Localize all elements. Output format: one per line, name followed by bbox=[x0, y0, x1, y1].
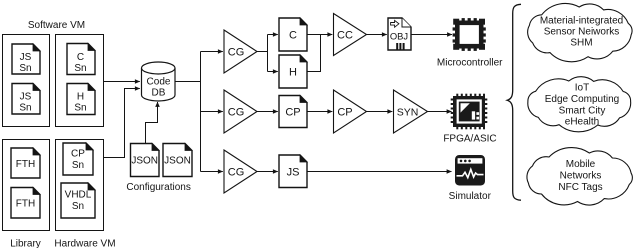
svg-text:Configurations: Configurations bbox=[126, 182, 190, 193]
svg-text:Microcontroller: Microcontroller bbox=[437, 58, 503, 69]
wire CP triangle to SYN bbox=[367, 111, 393, 113]
wire Code DB to CG trunk bbox=[175, 81, 201, 83]
document FTH #2 bbox=[11, 188, 40, 219]
svg-text:CG: CG bbox=[228, 46, 245, 58]
svg-text:Networks: Networks bbox=[560, 171, 602, 182]
document OBJ object file bbox=[388, 18, 411, 50]
svg-text:CC: CC bbox=[337, 29, 353, 41]
svg-text:Simulator: Simulator bbox=[449, 191, 492, 202]
document JS (generated) bbox=[279, 155, 307, 188]
cloud IoT Edge Computing Smart City eHealth bbox=[528, 77, 631, 132]
svg-text:eHealth: eHealth bbox=[565, 116, 599, 127]
triangle SYN synthesis bbox=[394, 90, 428, 133]
icon simulator window bbox=[455, 155, 485, 186]
triangle CG2 code generator bbox=[224, 90, 257, 133]
svg-text:JSON: JSON bbox=[164, 155, 191, 166]
svg-text:NFC Tags: NFC Tags bbox=[558, 182, 602, 193]
document JS Sn #1 bbox=[12, 44, 40, 74]
wire CG3 to JS document bbox=[257, 171, 278, 173]
svg-text:CG: CG bbox=[228, 166, 245, 178]
wire C/H merge into CC bbox=[307, 35, 321, 72]
curly brace applications bbox=[507, 4, 521, 200]
svg-text:Software VM: Software VM bbox=[28, 20, 85, 31]
icon FPGA/ASIC chip bbox=[451, 94, 488, 130]
document H (generated) bbox=[279, 55, 307, 88]
wire SYN to FPGA bbox=[428, 111, 452, 113]
svg-text:JS: JS bbox=[20, 52, 32, 63]
icon microcontroller chip bbox=[453, 18, 486, 51]
svg-text:Sensor Neiworks: Sensor Neiworks bbox=[544, 26, 620, 37]
svg-text:CG: CG bbox=[228, 106, 245, 118]
wire trunk to CG2 bbox=[201, 111, 223, 113]
wire Software VM to Code DB bbox=[104, 81, 140, 83]
wire OBJ to microcontroller bbox=[411, 34, 452, 36]
svg-text:Material-integrated: Material-integrated bbox=[540, 16, 623, 27]
svg-text:Sn: Sn bbox=[74, 63, 86, 74]
group box Hardware VM bbox=[56, 140, 104, 231]
wire CG1 branch to C and H bbox=[257, 51, 268, 53]
svg-text:Hardware VM: Hardware VM bbox=[54, 239, 115, 248]
triangle CC compiler bbox=[334, 14, 367, 56]
document CP (generated) bbox=[279, 96, 307, 128]
group box Library bbox=[3, 140, 50, 231]
document JS Sn #2 bbox=[12, 84, 40, 115]
svg-text:Sn: Sn bbox=[74, 103, 86, 114]
svg-text:JSON: JSON bbox=[131, 155, 158, 166]
svg-text:CP: CP bbox=[71, 149, 85, 160]
svg-text:H: H bbox=[77, 91, 84, 102]
document JSON #2 bbox=[163, 144, 192, 177]
triangle CP compiler bbox=[334, 90, 367, 133]
svg-text:DB: DB bbox=[152, 88, 166, 99]
svg-text:CP: CP bbox=[337, 106, 352, 118]
svg-text:Code: Code bbox=[147, 76, 171, 87]
svg-text:VHDL: VHDL bbox=[65, 189, 92, 200]
svg-text:JS: JS bbox=[20, 91, 32, 102]
svg-text:Sn: Sn bbox=[19, 63, 31, 74]
cloud Material-integrated Sensor Networks SHM bbox=[528, 3, 632, 61]
document C (generated) bbox=[279, 18, 307, 51]
triangle CG3 code generator bbox=[224, 150, 257, 193]
wire CC to OBJ bbox=[367, 34, 387, 36]
document C Sn bbox=[67, 44, 95, 75]
svg-text:OBJ: OBJ bbox=[390, 31, 408, 42]
document JSON #1 bbox=[131, 144, 160, 177]
svg-text:FTH: FTH bbox=[16, 199, 35, 210]
svg-text:FPGA/ASIC: FPGA/ASIC bbox=[443, 134, 496, 145]
wire JS document to simulator bbox=[307, 171, 452, 173]
document H Sn bbox=[67, 84, 95, 115]
svg-text:Sn: Sn bbox=[72, 201, 84, 212]
group box Software VM left (JS sources) bbox=[3, 35, 50, 127]
svg-text:FTH: FTH bbox=[16, 159, 35, 170]
svg-text:C: C bbox=[77, 52, 84, 63]
svg-text:Sn: Sn bbox=[19, 103, 31, 114]
svg-text:Smart City: Smart City bbox=[559, 105, 606, 116]
wire trunk to CG1 bbox=[201, 51, 223, 53]
svg-text:H: H bbox=[289, 66, 297, 78]
svg-text:SYN: SYN bbox=[397, 106, 419, 118]
wire JSON configurations up into Code DB bbox=[146, 102, 158, 144]
svg-text:Library: Library bbox=[10, 239, 41, 248]
svg-text:IoT: IoT bbox=[575, 82, 589, 93]
svg-text:JS: JS bbox=[287, 166, 300, 178]
document FTH #1 bbox=[11, 148, 40, 178]
wire CG2 to CP document bbox=[257, 111, 278, 113]
group box Software VM right (C/H sources) bbox=[56, 35, 104, 127]
document CP Sn bbox=[63, 143, 93, 175]
wire trunk vertical bbox=[200, 52, 202, 172]
triangle CG1 code generator bbox=[224, 30, 257, 73]
database cylinder Code DB bbox=[142, 62, 176, 101]
cloud Mobile Networks NFC Tags bbox=[527, 148, 632, 205]
svg-text:CP: CP bbox=[285, 106, 300, 118]
document VHDL Sn bbox=[61, 183, 95, 218]
wire Hardware VM to Code DB bbox=[104, 89, 140, 158]
svg-text:SHM: SHM bbox=[570, 38, 592, 49]
svg-text:Sn: Sn bbox=[72, 160, 84, 171]
svg-text:C: C bbox=[289, 29, 297, 41]
svg-text:Mobile: Mobile bbox=[566, 159, 596, 170]
wire trunk to CG3 bbox=[201, 171, 223, 173]
svg-text:Edge Computing: Edge Computing bbox=[545, 94, 620, 105]
wire CP document to CP triangle bbox=[307, 111, 332, 113]
